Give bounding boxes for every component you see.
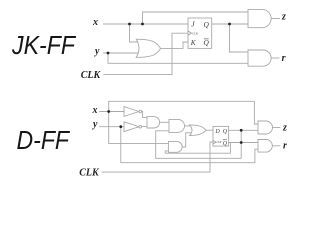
- svg-text:CLK: CLK: [192, 31, 199, 35]
- svg-text:r: r: [283, 140, 287, 151]
- svg-text:z: z: [281, 12, 286, 23]
- svg-text:Q: Q: [223, 129, 228, 135]
- svg-text:Q: Q: [204, 38, 210, 47]
- svg-text:CLK: CLK: [217, 141, 222, 144]
- svg-text:D-FF: D-FF: [17, 125, 71, 155]
- svg-text:y: y: [94, 46, 100, 57]
- svg-text:CLK: CLK: [79, 167, 100, 178]
- svg-text:D: D: [214, 129, 220, 135]
- svg-text:z: z: [282, 123, 287, 134]
- svg-text:Q: Q: [204, 20, 210, 29]
- svg-text:Q: Q: [223, 141, 228, 147]
- svg-text:x: x: [92, 17, 98, 28]
- svg-text:y: y: [92, 119, 98, 130]
- svg-text:JK-FF: JK-FF: [11, 30, 77, 60]
- svg-text:x: x: [92, 105, 98, 116]
- svg-text:CLK: CLK: [81, 70, 102, 81]
- svg-text:r: r: [282, 53, 286, 64]
